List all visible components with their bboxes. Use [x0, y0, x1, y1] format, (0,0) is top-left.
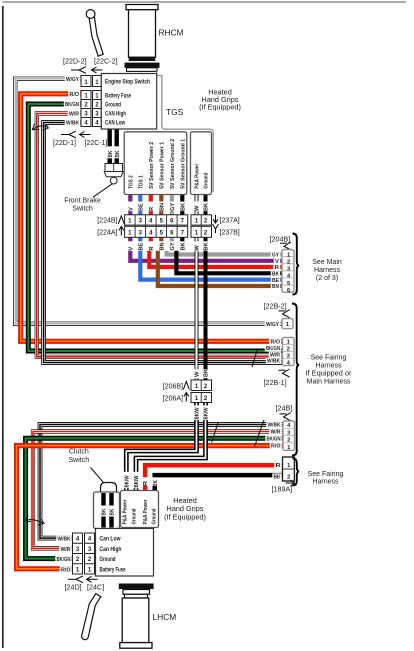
svg-text:[204B]: [204B] — [270, 234, 291, 243]
svg-text:CAN Low: CAN Low — [105, 120, 125, 127]
svg-text:BK/W: BK/W — [195, 407, 201, 420]
svg-text:2: 2 — [287, 438, 290, 444]
svg-text:BK/W: BK/W — [125, 475, 131, 488]
svg-text:P&A Power: P&A Power — [123, 499, 129, 525]
svg-text:GY: GY — [272, 253, 279, 259]
svg-text:W/BK: W/BK — [58, 537, 72, 543]
svg-text:BK: BK — [204, 369, 210, 377]
svg-text:TGS 2: TGS 2 — [129, 175, 135, 189]
svg-text:W: W — [195, 371, 201, 377]
svg-text:R/O: R/O — [61, 567, 71, 573]
svg-text:Harness: Harness — [312, 478, 339, 485]
svg-text:(If Equipped): (If Equipped) — [199, 102, 241, 111]
svg-text:R: R — [143, 481, 149, 486]
svg-text:LHCM: LHCM — [153, 612, 177, 622]
svg-text:BN: BN — [160, 242, 166, 250]
svg-text:BE: BE — [272, 278, 279, 284]
svg-text:BK: BK — [181, 242, 187, 250]
svg-text:CAN High: CAN High — [105, 111, 126, 118]
svg-text:2: 2 — [287, 474, 290, 480]
svg-text:[22D-1]: [22D-1] — [53, 140, 76, 147]
svg-text:BK: BK — [153, 480, 159, 487]
svg-text:BK: BK — [110, 509, 116, 516]
svg-text:TGS: TGS — [166, 107, 184, 117]
svg-text:Battery Fuse: Battery Fuse — [100, 566, 126, 573]
svg-text:2: 2 — [287, 259, 290, 265]
svg-text:5V Sensor Ground 1: 5V Sensor Ground 1 — [181, 139, 187, 189]
svg-text:V: V — [275, 259, 279, 265]
svg-text:BE: BE — [139, 242, 145, 250]
svg-text:Clutch: Clutch — [69, 449, 89, 456]
svg-text:(2 of 3): (2 of 3) — [316, 275, 338, 282]
svg-text:[22B-1]: [22B-1] — [264, 378, 287, 387]
svg-text:Ground: Ground — [131, 508, 137, 524]
svg-text:5V Sensor Power 1: 5V Sensor Power 1 — [160, 142, 166, 189]
svg-text:BK: BK — [108, 151, 114, 158]
svg-text:R: R — [149, 207, 155, 211]
svg-text:Ground: Ground — [105, 101, 121, 108]
svg-text:BK: BK — [181, 203, 187, 211]
svg-text:BK/W: BK/W — [204, 407, 210, 420]
svg-text:TGS 1: TGS 1 — [139, 175, 145, 189]
svg-text:R/O: R/O — [271, 339, 281, 345]
svg-text:P&A Power: P&A Power — [195, 163, 201, 189]
svg-text:W/R: W/R — [61, 547, 72, 553]
svg-text:BK/W: BK/W — [134, 475, 140, 488]
svg-text:[24D]: [24D] — [65, 583, 82, 592]
svg-text:5V Sensor Ground 2: 5V Sensor Ground 2 — [170, 139, 176, 189]
svg-text:W/GY: W/GY — [266, 322, 279, 328]
svg-text:5V Sensor Power 2: 5V Sensor Power 2 — [149, 142, 155, 189]
svg-text:V: V — [129, 247, 135, 251]
svg-text:W/BK: W/BK — [66, 121, 80, 127]
svg-text:P&A Power: P&A Power — [143, 499, 149, 525]
svg-text:[237A]: [237A] — [220, 218, 240, 225]
svg-text:[224B]: [224B] — [97, 218, 117, 225]
svg-text:BK: BK — [115, 151, 121, 158]
svg-text:[237B]: [237B] — [220, 230, 240, 237]
svg-text:Can Low: Can Low — [100, 536, 121, 543]
svg-text:See Fairing: See Fairing — [311, 355, 347, 362]
svg-text:[189A]: [189A] — [272, 485, 293, 494]
svg-text:BK/GN: BK/GN — [57, 557, 71, 563]
svg-text:Harness: Harness — [314, 267, 341, 274]
svg-text:GY: GY — [170, 203, 176, 211]
svg-text:[22D-2]: [22D-2] — [63, 56, 87, 65]
svg-text:Switch: Switch — [72, 206, 93, 213]
svg-text:W/GY: W/GY — [66, 77, 79, 83]
svg-text:See Main: See Main — [312, 259, 342, 266]
svg-text:See Fairing: See Fairing — [308, 471, 344, 478]
svg-text:RHCM: RHCM — [159, 28, 184, 38]
svg-text:W/R: W/R — [271, 430, 281, 436]
svg-text:[206A]: [206A] — [163, 395, 183, 402]
svg-text:Battery Fuse: Battery Fuse — [105, 92, 131, 99]
svg-text:BN: BN — [272, 284, 279, 290]
svg-text:BK: BK — [204, 242, 210, 250]
svg-text:V: V — [129, 207, 135, 211]
svg-text:Front Brake: Front Brake — [64, 197, 101, 204]
svg-text:BK/GN: BK/GN — [65, 102, 79, 108]
svg-text:If Equipped or: If Equipped or — [306, 371, 353, 378]
svg-text:R: R — [275, 265, 280, 271]
svg-text:BK: BK — [204, 203, 210, 211]
svg-text:BK: BK — [274, 474, 281, 480]
svg-text:[24B]: [24B] — [276, 403, 293, 412]
svg-text:Main Harness: Main Harness — [307, 379, 352, 386]
svg-text:W: W — [195, 245, 201, 251]
svg-text:(If Equipped): (If Equipped) — [164, 513, 206, 522]
svg-text:R: R — [276, 463, 281, 469]
svg-text:BK: BK — [102, 509, 108, 516]
svg-text:Engine Stop Switch: Engine Stop Switch — [105, 78, 150, 85]
svg-text:R/O: R/O — [70, 92, 80, 98]
svg-text:Ground: Ground — [204, 172, 210, 188]
svg-text:BN: BN — [160, 203, 166, 211]
svg-text:BE: BE — [139, 203, 145, 211]
svg-text:BK/GN: BK/GN — [267, 436, 281, 442]
svg-text:W/BK: W/BK — [267, 359, 280, 365]
svg-text:[206B]: [206B] — [163, 383, 183, 390]
svg-text:Can High: Can High — [100, 546, 122, 553]
svg-text:Ground: Ground — [152, 508, 158, 524]
svg-text:[224A]: [224A] — [97, 230, 117, 237]
svg-text:GY: GY — [170, 242, 176, 250]
svg-text:2: 2 — [287, 346, 290, 352]
svg-text:[22C-2]: [22C-2] — [94, 56, 118, 65]
svg-text:[24C]: [24C] — [87, 583, 104, 592]
svg-text:W: W — [195, 205, 201, 211]
svg-text:Ground: Ground — [100, 556, 116, 563]
svg-text:Harness: Harness — [315, 363, 342, 370]
svg-text:BK/GN: BK/GN — [266, 346, 280, 352]
svg-text:W/BK: W/BK — [268, 423, 281, 429]
svg-text:W/R: W/R — [69, 112, 80, 118]
svg-text:R/O: R/O — [271, 444, 281, 450]
svg-text:[22B-2]: [22B-2] — [264, 301, 287, 310]
svg-text:BK: BK — [272, 272, 279, 278]
svg-text:[22C-1]: [22C-1] — [85, 140, 108, 147]
svg-text:R: R — [149, 246, 155, 250]
svg-text:Switch: Switch — [68, 457, 89, 464]
